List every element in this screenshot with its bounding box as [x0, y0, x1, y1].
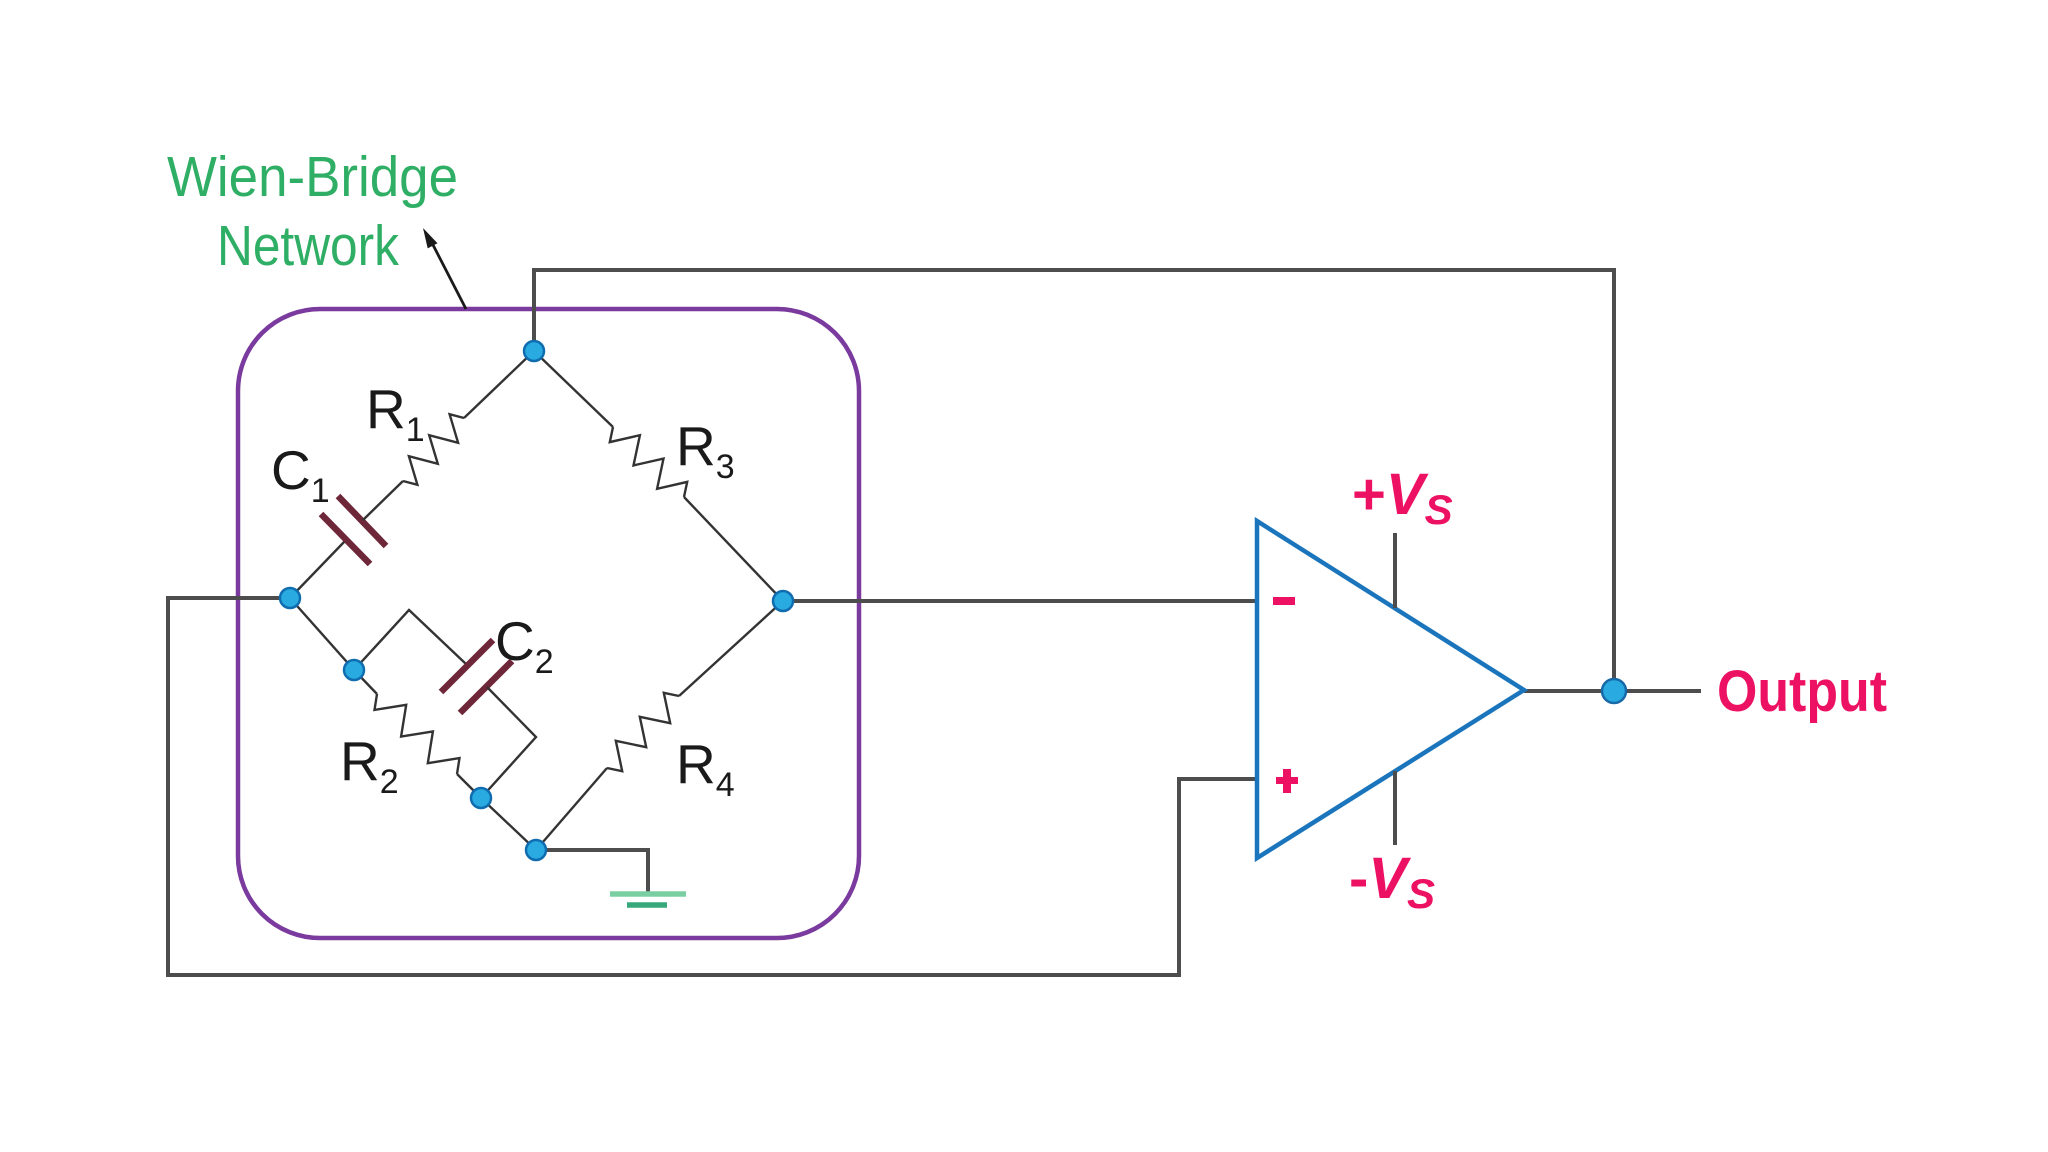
op-amp minus sign [1273, 597, 1295, 605]
resistor R1 [403, 414, 464, 485]
node bottom [526, 840, 546, 860]
wire top node to R3 [534, 351, 613, 427]
wire left node left, down, right, up to op-amp non-inverting input [168, 598, 1258, 975]
wire C1 branch: left node to C1 plate [290, 541, 345, 598]
wire R1 to top node [464, 351, 534, 418]
annotation arrow [431, 241, 466, 309]
wire C2 parallel branch [354, 610, 466, 670]
wire R3 to right node [684, 497, 783, 601]
op-amp U1 [1257, 521, 1524, 858]
resistor R4 [607, 693, 679, 771]
wire C1 to R1 [363, 481, 403, 520]
wire top feedback: top node up, right, down to output node [534, 270, 1614, 691]
wire bottom node to R4 [536, 768, 607, 850]
svg-text:Network: Network [217, 214, 399, 278]
svg-text:Wien-Bridge: Wien-Bridge [167, 145, 458, 209]
wire op-amp output to Output label [1524, 689, 1701, 693]
resistor R3 [610, 427, 687, 497]
svg-text:Output: Output [1717, 659, 1887, 724]
ground symbol (green bars) [610, 891, 686, 897]
node output [1602, 679, 1626, 703]
capacitor C2 [441, 640, 493, 692]
Wien-Bridge Network box (purple rounded rectangle) [238, 309, 859, 938]
wire junction to bottom node [481, 798, 536, 850]
node top [524, 341, 544, 361]
op-amp plus sign [1276, 777, 1298, 784]
node left [280, 588, 300, 608]
resistor R2 [354, 670, 377, 694]
node R2 top [344, 660, 364, 680]
node right [773, 591, 793, 611]
node R2 bottom junction [471, 788, 491, 808]
wire bottom node to ground [536, 850, 648, 893]
wire R4 to right node [679, 601, 783, 696]
capacitor C1 [321, 514, 370, 564]
wire right node to op-amp inverting input [783, 599, 1258, 603]
-Vs supply wire [1393, 771, 1397, 845]
wire C2 to junction [481, 687, 536, 798]
+Vs supply wire [1393, 533, 1397, 608]
wire left node to R2 node [290, 598, 354, 670]
